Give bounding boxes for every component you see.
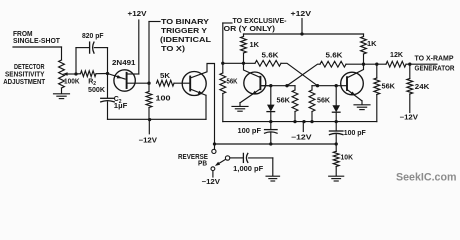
svg-text:1,000 pF: 1,000 pF xyxy=(233,166,264,173)
wire rail to 100pF left xyxy=(270,122,272,130)
transistor Q4 flip-flop right xyxy=(341,72,364,95)
wire 10K leads xyxy=(335,144,337,151)
wire left base line xyxy=(260,85,295,87)
resistor 12K xyxy=(386,61,406,67)
wire cross right-top to left-base xyxy=(287,64,320,86)
node right base diode junction xyxy=(335,84,338,87)
switch contact upper xyxy=(212,149,216,153)
wire 820pF to base node xyxy=(94,47,107,49)
wire right collector line xyxy=(364,63,387,65)
svg-text:5.6K: 5.6K xyxy=(262,53,279,60)
wire 56K mid-left leads xyxy=(294,86,296,90)
ground Q4 emitter xyxy=(354,104,370,106)
Q4 base bar xyxy=(346,77,348,90)
ground pot xyxy=(54,93,70,95)
wire 100ohm leads xyxy=(148,83,150,91)
wire rail-2 trigger line xyxy=(215,143,337,145)
Q4 emitter lead with arrow xyxy=(347,90,362,101)
wire cross left-top to right-base xyxy=(281,63,318,85)
wire to exclusive-or tap xyxy=(223,22,232,24)
resistor 10K xyxy=(333,151,339,166)
resistor 56K mid-right xyxy=(309,90,315,112)
switch arm with arrow xyxy=(217,159,226,164)
capacitor 100pF left xyxy=(265,129,278,131)
wire 56K mid-right leads xyxy=(311,86,313,90)
wire bottom rail left xyxy=(108,118,207,120)
node 24K junction xyxy=(408,63,411,66)
wire to X-ramp generator xyxy=(410,63,437,65)
node +12V stub xyxy=(300,32,303,35)
diode left steering xyxy=(270,86,272,105)
svg-text:ADJUSTMENT: ADJUSTMENT xyxy=(3,79,46,86)
wire +12V top rail xyxy=(244,33,364,35)
svg-text:500K: 500K xyxy=(88,87,105,94)
wire 56K left leads xyxy=(222,63,224,73)
svg-text:2N491: 2N491 xyxy=(112,60,136,67)
node R2-C2-emitter junction xyxy=(106,72,109,75)
svg-text:OR (Y ONLY): OR (Y ONLY) xyxy=(224,26,276,33)
wire 100pF left to rail-2 xyxy=(270,133,272,144)
UJT base-one lead xyxy=(127,82,149,84)
Q2 emitter lead with arrow xyxy=(190,89,206,95)
switch contact right xyxy=(225,156,229,160)
svg-text:24K: 24K xyxy=(415,84,430,91)
svg-text:GENERATOR: GENERATOR xyxy=(415,65,455,72)
svg-text:FROM: FROM xyxy=(13,31,33,38)
wire trigger to PB contact xyxy=(214,146,216,149)
svg-text:56K: 56K xyxy=(317,98,330,105)
wire 1K left leads xyxy=(243,34,245,37)
svg-text:+12V: +12V xyxy=(128,11,147,18)
svg-text:56K: 56K xyxy=(382,83,396,90)
svg-text:−12V: −12V xyxy=(291,134,312,141)
resistor 5.6K left xyxy=(255,60,281,66)
diode right steering xyxy=(335,86,337,106)
svg-text:56K: 56K xyxy=(277,97,291,104)
resistor 5.6K right xyxy=(320,61,346,67)
svg-text:100K: 100K xyxy=(64,78,80,85)
wire left collector line xyxy=(223,62,255,64)
node 56K right junction xyxy=(375,63,378,66)
node rail-2 left end xyxy=(213,142,216,145)
resistor 56K left steering xyxy=(220,73,226,94)
node 56K mid-right rail xyxy=(310,120,313,123)
node 1K right junction xyxy=(362,63,365,66)
Q3 collector lead xyxy=(244,63,261,77)
wire 1K right lead xyxy=(363,54,365,64)
resistor 24K xyxy=(407,79,413,95)
svg-text:1K: 1K xyxy=(367,41,377,48)
wire 5K to base xyxy=(174,82,190,84)
wire right base line xyxy=(312,85,347,87)
svg-text:12K: 12K xyxy=(390,52,403,59)
svg-text:TO EXCLUSIVE-: TO EXCLUSIVE- xyxy=(233,18,288,25)
capacitor 820pF xyxy=(89,42,91,53)
Q3 emitter lead with arrow xyxy=(240,89,260,103)
wire 24K leads xyxy=(409,64,411,78)
svg-text:SINGLE-SHOT: SINGLE-SHOT xyxy=(13,38,61,45)
Q3 base lead xyxy=(260,85,270,87)
pot wiper arrow xyxy=(67,73,77,75)
svg-text:TO BINARY: TO BINARY xyxy=(161,19,209,26)
wire node to C2 xyxy=(107,74,109,99)
transistor Q2 driver xyxy=(182,72,206,96)
svg-text:+12V: +12V xyxy=(291,11,312,18)
resistor 1K left xyxy=(241,37,247,54)
node left collector line junction xyxy=(221,62,224,65)
wire 100pF right to rail-2 xyxy=(335,134,337,144)
switch pole circle xyxy=(211,167,215,171)
node -12V mid stub xyxy=(302,120,305,123)
svg-text:−12V: −12V xyxy=(400,115,419,122)
wire diode right to rail xyxy=(335,112,337,121)
node left base cross junction xyxy=(285,84,288,87)
potentiometer R1 100K body xyxy=(59,60,65,88)
wire rail to 100pF right xyxy=(335,122,337,131)
node diode right rail xyxy=(335,120,338,123)
node 56K mid-left rail xyxy=(293,120,296,123)
node 100pF left rail-2 xyxy=(269,142,272,145)
wire PB contact to 1000pF xyxy=(230,157,243,159)
UJT base-two lead to +12V xyxy=(127,73,139,75)
Q2 base bar xyxy=(189,77,191,91)
wire pot to ground xyxy=(61,88,63,93)
Q3 base bar xyxy=(259,77,261,89)
UJT base bar xyxy=(126,73,128,88)
resistor 100 ohm xyxy=(146,92,152,108)
ground 10K xyxy=(329,175,344,177)
capacitor C2 1uF xyxy=(101,97,115,99)
svg-text:−12V: −12V xyxy=(139,137,158,144)
capacitor 100pF right xyxy=(329,130,343,132)
svg-text:1µF: 1µF xyxy=(114,103,128,110)
resistor 56K mid-left xyxy=(292,90,298,112)
resistor 1K right xyxy=(361,37,367,55)
node 100pF right rail-2 xyxy=(335,142,338,145)
node 1K left junction xyxy=(242,62,245,65)
wire diode left to rail xyxy=(270,112,272,122)
wire rail-1 minus12 steering rail xyxy=(223,121,377,123)
wire wiper node up to 820pF xyxy=(75,48,77,74)
wire -12V stub left xyxy=(148,120,150,134)
UJT emitter wire with arrow xyxy=(108,74,126,80)
svg-text:5K: 5K xyxy=(160,73,170,80)
wire C2 to rail xyxy=(107,102,109,120)
node left base diode junction xyxy=(269,84,272,87)
svg-text:DETECTOR: DETECTOR xyxy=(14,64,45,71)
ground 1000pF xyxy=(266,175,280,177)
wire top rail corner right xyxy=(363,34,365,37)
svg-text:PB: PB xyxy=(198,161,207,168)
node right base cross junction xyxy=(316,84,319,87)
svg-text:1K: 1K xyxy=(250,42,260,49)
Q4 collector lead xyxy=(347,64,364,78)
wire 56K right leads xyxy=(376,64,378,78)
svg-text:TRIGGER Y: TRIGGER Y xyxy=(161,28,207,35)
wire R2 leads xyxy=(76,73,81,75)
wire 12K to output node xyxy=(406,63,410,65)
svg-text:100 pF: 100 pF xyxy=(238,128,262,135)
wire 1000pF to ground xyxy=(249,157,273,159)
svg-text:56K: 56K xyxy=(227,79,238,86)
resistor 5K xyxy=(157,80,175,86)
wire to binary trigger Y xyxy=(149,21,160,23)
ground Q3 emitter xyxy=(232,105,248,107)
wire 5.6K right to collector xyxy=(346,63,364,65)
wire input from single-shot xyxy=(13,46,62,48)
svg-text:820 pF: 820 pF xyxy=(82,33,104,40)
capacitor 1000pF xyxy=(242,153,244,162)
wire pole to -12V xyxy=(212,171,214,177)
wire -12V mid stub xyxy=(302,122,304,132)
svg-text:100 pF: 100 pF xyxy=(344,130,367,137)
resistor R2 500K xyxy=(81,71,97,77)
wire +12V stub xyxy=(301,19,303,35)
svg-text:SeekIC.com: SeekIC.com xyxy=(396,172,457,184)
node -12V rail junction xyxy=(148,118,151,121)
svg-text:TO X-RAMP: TO X-RAMP xyxy=(415,56,454,63)
unijunction transistor Q1 2N491 xyxy=(114,70,135,91)
svg-text:5.6K: 5.6K xyxy=(326,53,343,60)
node diode left rail xyxy=(269,120,272,123)
svg-text:TO X): TO X) xyxy=(161,46,185,53)
svg-text:SENSITIVITY: SENSITIVITY xyxy=(5,71,45,78)
resistor 56K right steering xyxy=(374,78,380,95)
Q2 collector lead xyxy=(190,64,214,144)
node wiper junction xyxy=(74,72,77,75)
node base-one junction xyxy=(147,82,150,85)
svg-text:(IDENTICAL: (IDENTICAL xyxy=(160,37,212,44)
svg-text:−12V: −12V xyxy=(202,179,221,186)
svg-text:10K: 10K xyxy=(341,154,354,161)
svg-text:100: 100 xyxy=(156,95,171,102)
transistor Q3 flip-flop left xyxy=(244,72,266,94)
